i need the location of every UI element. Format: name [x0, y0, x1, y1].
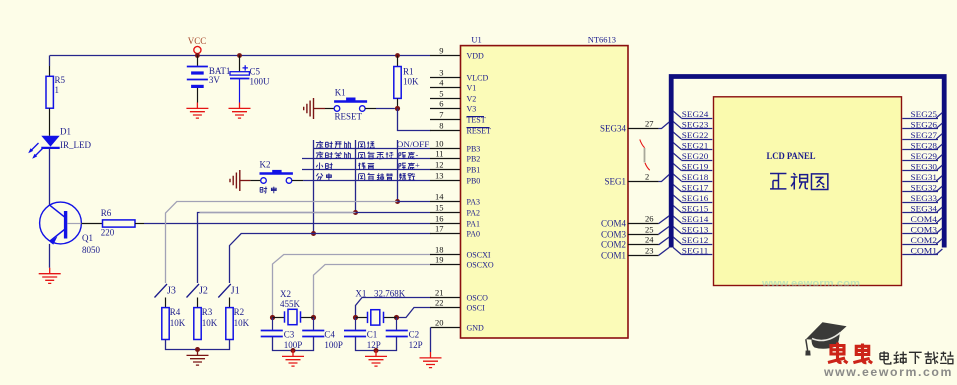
svg-text:SEG31: SEG31 — [911, 173, 938, 182]
jumper J1 — [218, 284, 231, 298]
node SEG23 — [673, 120, 712, 129]
svg-text:PB3: PB3 — [467, 145, 481, 154]
svg-text:455K: 455K — [280, 299, 301, 309]
svg-text:3V: 3V — [209, 75, 221, 85]
svg-text:SEG28: SEG28 — [911, 141, 938, 150]
ground BAT1 — [186, 103, 208, 119]
node SEG20 — [673, 152, 712, 161]
resistor R3 — [194, 308, 201, 340]
svg-text:SEG13: SEG13 — [682, 225, 709, 234]
LCD inner panel box — [714, 97, 902, 286]
svg-text:25: 25 — [645, 225, 654, 235]
transistor Q1 — [40, 202, 82, 244]
wire D1 to Q1 — [49, 148, 51, 205]
wire OSCO pin 21 to X1 — [356, 298, 431, 318]
svg-text:12: 12 — [435, 160, 444, 170]
IC U1 NT6613 body — [461, 46, 629, 338]
svg-text:C5: C5 — [250, 67, 261, 77]
node SEG16 — [673, 194, 712, 203]
svg-text:VCC: VCC — [188, 36, 207, 46]
svg-text:K2: K2 — [260, 160, 271, 170]
pin 4 V1 — [430, 87, 461, 89]
svg-text:PB1: PB1 — [467, 166, 481, 175]
wire PB1 row pin 12 — [302, 169, 430, 171]
svg-text:18: 18 — [435, 245, 444, 255]
svg-text:SEG29: SEG29 — [911, 152, 938, 161]
svg-text:21: 21 — [435, 288, 444, 298]
ground X2 — [282, 351, 304, 367]
svg-text:22: 22 — [435, 298, 444, 308]
svg-text:SEG24: SEG24 — [682, 110, 709, 119]
svg-text:D1: D1 — [60, 127, 71, 137]
capacitor C1 — [355, 318, 357, 330]
svg-text:23: 23 — [645, 246, 654, 256]
node SEG19 — [673, 162, 712, 171]
svg-text:SEG1: SEG1 — [604, 177, 626, 187]
wire caps to ground X1 — [356, 337, 397, 351]
wire resistors to ground bus — [166, 340, 230, 350]
wire J2 to PA2 pin 15 — [198, 213, 356, 284]
svg-text:RESET: RESET — [335, 112, 363, 122]
LCD outer frame — [671, 77, 944, 248]
svg-text:OSCXO: OSCXO — [467, 261, 494, 270]
svg-text:24: 24 — [645, 235, 654, 245]
pin 27 SEG34 — [628, 128, 659, 130]
svg-text:VLCD: VLCD — [467, 74, 489, 83]
svg-text:SEG32: SEG32 — [911, 183, 938, 192]
junction column2-PA2 — [353, 210, 358, 215]
pin 5 V2 — [430, 98, 461, 100]
wire Q1 base to R6 — [81, 223, 102, 225]
svg-text:SEG16: SEG16 — [682, 194, 709, 203]
svg-text:www.eeworm.com: www.eeworm.com — [761, 278, 860, 290]
node COM4 right — [902, 215, 942, 224]
node SEG15 — [673, 204, 712, 213]
svg-text:2: 2 — [645, 172, 649, 182]
svg-text:13: 13 — [435, 171, 444, 181]
svg-text:SEG17: SEG17 — [682, 183, 709, 192]
front view text — [770, 173, 786, 188]
svg-text:X2: X2 — [280, 289, 291, 299]
capacitor C3 — [272, 318, 274, 330]
svg-text:SEG15: SEG15 — [682, 204, 709, 213]
junction X2 ground — [291, 348, 296, 353]
wire PB2 row pin 11 — [302, 158, 430, 160]
node SEG27 right — [902, 131, 942, 140]
svg-text:LCD PANEL: LCD PANEL — [767, 151, 816, 161]
svg-text:C4: C4 — [324, 330, 335, 340]
pin 2 SEG1 — [628, 181, 659, 183]
svg-text:+: + — [415, 160, 420, 170]
svg-text:Q1: Q1 — [82, 233, 93, 243]
svg-text:COM1: COM1 — [601, 251, 626, 261]
svg-text:OSCI: OSCI — [467, 304, 486, 313]
jumper J3 — [155, 284, 168, 298]
pin 6 V3 — [430, 108, 461, 110]
svg-text:-: - — [416, 150, 419, 160]
svg-text:10K: 10K — [170, 318, 186, 328]
svg-text:27: 27 — [645, 119, 654, 129]
svg-text:11: 11 — [435, 149, 443, 159]
wire Q1 base gray stub — [67, 223, 81, 225]
svg-text:20: 20 — [435, 318, 444, 328]
wire C5 to ground — [239, 79, 241, 103]
svg-text:R2: R2 — [234, 307, 245, 317]
svg-text:SEG22: SEG22 — [682, 131, 709, 140]
wire COM2 to LCD — [659, 237, 670, 245]
svg-text:10: 10 — [435, 139, 444, 149]
node SEG18 — [673, 173, 712, 182]
node SEG33 right — [902, 194, 942, 203]
svg-text:R6: R6 — [101, 208, 112, 218]
wire earth to K2 — [240, 180, 251, 182]
resistor R4 — [162, 308, 169, 340]
svg-text:14: 14 — [435, 192, 444, 202]
ground C5 — [229, 103, 251, 119]
ground Q1 emitter — [39, 268, 61, 284]
svg-text:SEG12: SEG12 — [682, 236, 709, 245]
wire matrix column 1 — [313, 140, 315, 234]
svg-text:SEG26: SEG26 — [911, 120, 938, 129]
earth symbol left of K2 — [230, 170, 240, 191]
wire J3 to PA3 pin 14 — [166, 202, 398, 284]
svg-text:SEG34: SEG34 — [600, 124, 627, 134]
resistor R1 — [397, 56, 399, 67]
wire SEG34 to LCD — [659, 122, 670, 129]
pin 9 stub — [430, 55, 461, 57]
svg-text:PA1: PA1 — [467, 220, 481, 229]
pushbutton K1 — [334, 106, 340, 112]
svg-text:SEG20: SEG20 — [682, 152, 709, 161]
svg-text:SEG11: SEG11 — [682, 246, 709, 255]
svg-text:V1: V1 — [467, 84, 477, 93]
wire COM3 to LCD — [659, 226, 670, 234]
wire Q1 emitter to ground — [49, 244, 51, 268]
earth symbol left of K1 — [304, 98, 314, 119]
junction ground bus — [195, 347, 200, 352]
node SEG17 — [673, 183, 712, 192]
VCC power port — [194, 46, 201, 53]
svg-text:R5: R5 — [55, 75, 66, 85]
table text row2: timer-off / wind direction / temp- — [316, 152, 323, 159]
svg-text:NT6613: NT6613 — [588, 35, 616, 45]
svg-text:PA2: PA2 — [467, 209, 481, 218]
table text row4: minute / wind auto / mode — [316, 173, 323, 180]
node COM3 right — [902, 225, 942, 234]
ground maroon below R3 — [187, 350, 209, 366]
wire PB3 row pin 10 — [313, 148, 430, 150]
svg-text:J3: J3 — [167, 286, 176, 297]
svg-text:V3: V3 — [467, 105, 477, 114]
junction column1-PA0 — [311, 231, 316, 236]
svg-text:3: 3 — [439, 68, 443, 78]
junction at R1 — [395, 53, 400, 58]
svg-text:VDD: VDD — [467, 52, 485, 61]
logo chongchong red text — [828, 343, 848, 364]
svg-text:www.eeworm.com: www.eeworm.com — [823, 367, 953, 379]
wire PB0 row pin 13 from K2 — [303, 180, 430, 182]
wire R5 branch — [49, 56, 51, 67]
wire OSCXI pin 18 to X2 — [273, 255, 431, 318]
svg-text:IR_LED: IR_LED — [60, 140, 91, 150]
ground pin 20 — [420, 352, 442, 368]
node SEG29 right — [902, 152, 942, 161]
node COM2 right — [902, 236, 942, 245]
svg-text:R1: R1 — [403, 67, 414, 77]
svg-text:5: 5 — [439, 89, 443, 99]
wire K1 to junction — [365, 108, 376, 110]
svg-text:32.768K: 32.768K — [374, 289, 406, 299]
svg-text:U1: U1 — [471, 35, 481, 45]
capacitor C2 — [396, 318, 398, 330]
svg-text:OSCO: OSCO — [467, 294, 489, 303]
svg-text:220: 220 — [101, 228, 115, 238]
svg-text:COM1: COM1 — [911, 246, 938, 255]
svg-text:J2: J2 — [199, 286, 208, 297]
resistor R6 — [103, 220, 136, 227]
svg-text:C3: C3 — [284, 330, 295, 340]
svg-text:R4: R4 — [170, 307, 181, 317]
wire R6 to PA1 pin 16 — [135, 223, 144, 225]
svg-text:SEG19: SEG19 — [682, 162, 709, 171]
wire SEG1 to LCD — [659, 175, 670, 182]
capacitor C4 — [313, 318, 315, 330]
svg-text:COM2: COM2 — [911, 236, 938, 245]
wire junction to pin 8 RESET — [398, 109, 431, 131]
wire R1 to K1 junction — [397, 98, 399, 108]
svg-text:PB0: PB0 — [467, 177, 481, 186]
svg-text:12P: 12P — [367, 340, 381, 350]
svg-text:SEG21: SEG21 — [682, 141, 709, 150]
svg-text:12P: 12P — [409, 340, 423, 350]
svg-text:10K: 10K — [403, 77, 419, 87]
svg-text:SEG14: SEG14 — [682, 215, 709, 224]
svg-text:R3: R3 — [202, 307, 213, 317]
logo graduation cap — [805, 322, 846, 355]
svg-text:SEG23: SEG23 — [682, 120, 709, 129]
resistor R5 — [46, 76, 53, 108]
table text row1: timer-on / wind speed / ON-OFF — [316, 141, 323, 148]
svg-text:SEG18: SEG18 — [682, 173, 709, 182]
node SEG28 right — [902, 141, 942, 150]
svg-text:10K: 10K — [234, 318, 250, 328]
svg-text:100U: 100U — [250, 77, 271, 87]
svg-text:X1: X1 — [355, 289, 366, 299]
svg-text:COM2: COM2 — [601, 240, 626, 250]
svg-text:COM3: COM3 — [911, 225, 938, 234]
node SEG11 — [673, 246, 712, 255]
resistor R2 — [226, 308, 233, 340]
svg-text:8050: 8050 — [82, 245, 101, 255]
svg-text:26: 26 — [645, 214, 654, 224]
node SEG30 right — [902, 162, 942, 171]
svg-text:SEG30: SEG30 — [911, 162, 938, 171]
svg-text:9: 9 — [439, 46, 443, 56]
junction at VCC — [195, 53, 200, 58]
svg-text:SEG33: SEG33 — [911, 194, 938, 203]
wire K2 to row — [292, 180, 303, 182]
node SEG32 right — [902, 183, 942, 192]
svg-text:V2: V2 — [467, 95, 477, 104]
svg-text:PA3: PA3 — [467, 198, 481, 207]
wire J3 to R4 — [165, 298, 167, 308]
svg-text:COM4: COM4 — [911, 215, 938, 224]
junction column3-PA3 — [395, 199, 400, 204]
svg-text:C2: C2 — [409, 330, 420, 340]
node SEG34 right — [902, 204, 942, 213]
wire BAT1 to ground — [197, 88, 199, 103]
pin 7 TEST — [430, 119, 461, 121]
junction X1 ground — [374, 348, 379, 353]
svg-text:PB2: PB2 — [467, 155, 481, 164]
diode D1 IR_LED — [41, 136, 59, 147]
svg-text:10K: 10K — [202, 318, 218, 328]
svg-text:OSCXI: OSCXI — [467, 251, 491, 260]
node COM1 right — [902, 246, 942, 255]
svg-text:1: 1 — [55, 85, 60, 95]
svg-text:RESET: RESET — [467, 127, 492, 136]
battery BAT1 — [197, 56, 199, 66]
node SEG24 — [673, 110, 712, 119]
jumper J2 — [187, 284, 200, 298]
node SEG12 — [673, 236, 712, 245]
ground X1 — [365, 351, 387, 367]
wire earth to K1 — [314, 108, 326, 110]
svg-text:SEG34: SEG34 — [911, 204, 938, 213]
node SEG26 right — [902, 120, 942, 129]
pushbutton K2 clock — [261, 178, 267, 184]
wire OSCXO pin 19 to X2 — [314, 265, 431, 318]
pin 25 COM3 — [628, 234, 659, 236]
svg-text:15: 15 — [435, 203, 444, 213]
wire J2 to R3 — [197, 298, 199, 308]
wire caps to ground X2 — [273, 337, 314, 351]
svg-text:19: 19 — [435, 255, 444, 265]
wire COM4 to LCD — [659, 216, 670, 224]
pin 23 COM1 — [628, 255, 659, 257]
red break squiggle — [640, 140, 645, 148]
svg-text:16: 16 — [435, 214, 444, 224]
svg-text:6: 6 — [439, 99, 443, 109]
wire VCC rail — [50, 55, 430, 57]
wire GND pin 20 — [431, 327, 461, 329]
capacitor C5 — [239, 56, 241, 72]
wire J1 to PA0 pin 17 — [230, 234, 431, 284]
svg-text:8: 8 — [439, 121, 443, 131]
svg-text:J1: J1 — [231, 286, 240, 297]
svg-text:K1: K1 — [335, 88, 346, 98]
pin 24 COM2 — [628, 244, 659, 246]
junction at C5 — [237, 53, 242, 58]
pin 26 COM4 — [628, 223, 659, 225]
wire matrix column 2 — [355, 140, 357, 213]
junction K1-R1 — [395, 106, 400, 111]
wire matrix column 3 — [397, 140, 399, 202]
wire R5 to D1 — [49, 108, 51, 136]
watermark on panel — [761, 278, 860, 290]
wire COM1 to LCD — [659, 247, 670, 255]
node SEG14 — [673, 215, 712, 224]
svg-text:SEG25: SEG25 — [911, 110, 938, 119]
svg-text:ON/OFF: ON/OFF — [397, 139, 430, 149]
logo site name text — [880, 351, 891, 364]
svg-text:7: 7 — [439, 110, 443, 120]
svg-text:TEST: TEST — [467, 116, 486, 125]
node SEG22 — [673, 131, 712, 140]
svg-text:C1: C1 — [367, 330, 378, 340]
node SEG21 — [673, 141, 712, 150]
pin 3 VLCD — [430, 77, 461, 79]
svg-text:GND: GND — [467, 324, 485, 333]
svg-text:COM3: COM3 — [601, 230, 627, 240]
node SEG25 right — [902, 110, 942, 119]
node SEG13 — [673, 225, 712, 234]
svg-text:COM4: COM4 — [601, 219, 627, 229]
svg-text:17: 17 — [435, 224, 444, 234]
wire OSCI pin 22 to X1 — [397, 308, 431, 318]
svg-text:PA0: PA0 — [467, 230, 481, 239]
node SEG31 right — [902, 173, 942, 182]
table text row3: hour / sleep / temp+ — [316, 163, 323, 170]
svg-text:SEG27: SEG27 — [911, 131, 938, 140]
wire J1 to R2 — [229, 298, 231, 308]
svg-text:100P: 100P — [324, 340, 343, 350]
